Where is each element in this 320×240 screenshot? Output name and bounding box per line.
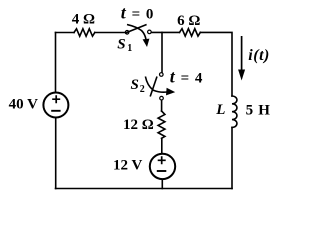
svg-text:L: L: [215, 102, 225, 118]
svg-text:2: 2: [140, 84, 145, 95]
svg-text:12 Ω: 12 Ω: [123, 117, 154, 133]
svg-text:5 H: 5 H: [246, 103, 271, 119]
svg-text:6 Ω: 6 Ω: [177, 13, 200, 29]
svg-text:40 V: 40 V: [9, 96, 38, 112]
svg-text:1: 1: [127, 43, 132, 54]
svg-text:S: S: [131, 77, 139, 93]
svg-text:i(t): i(t): [248, 47, 270, 64]
svg-text:12 V: 12 V: [113, 158, 142, 174]
svg-text:S: S: [117, 36, 125, 52]
svg-text:4 Ω: 4 Ω: [72, 12, 95, 28]
